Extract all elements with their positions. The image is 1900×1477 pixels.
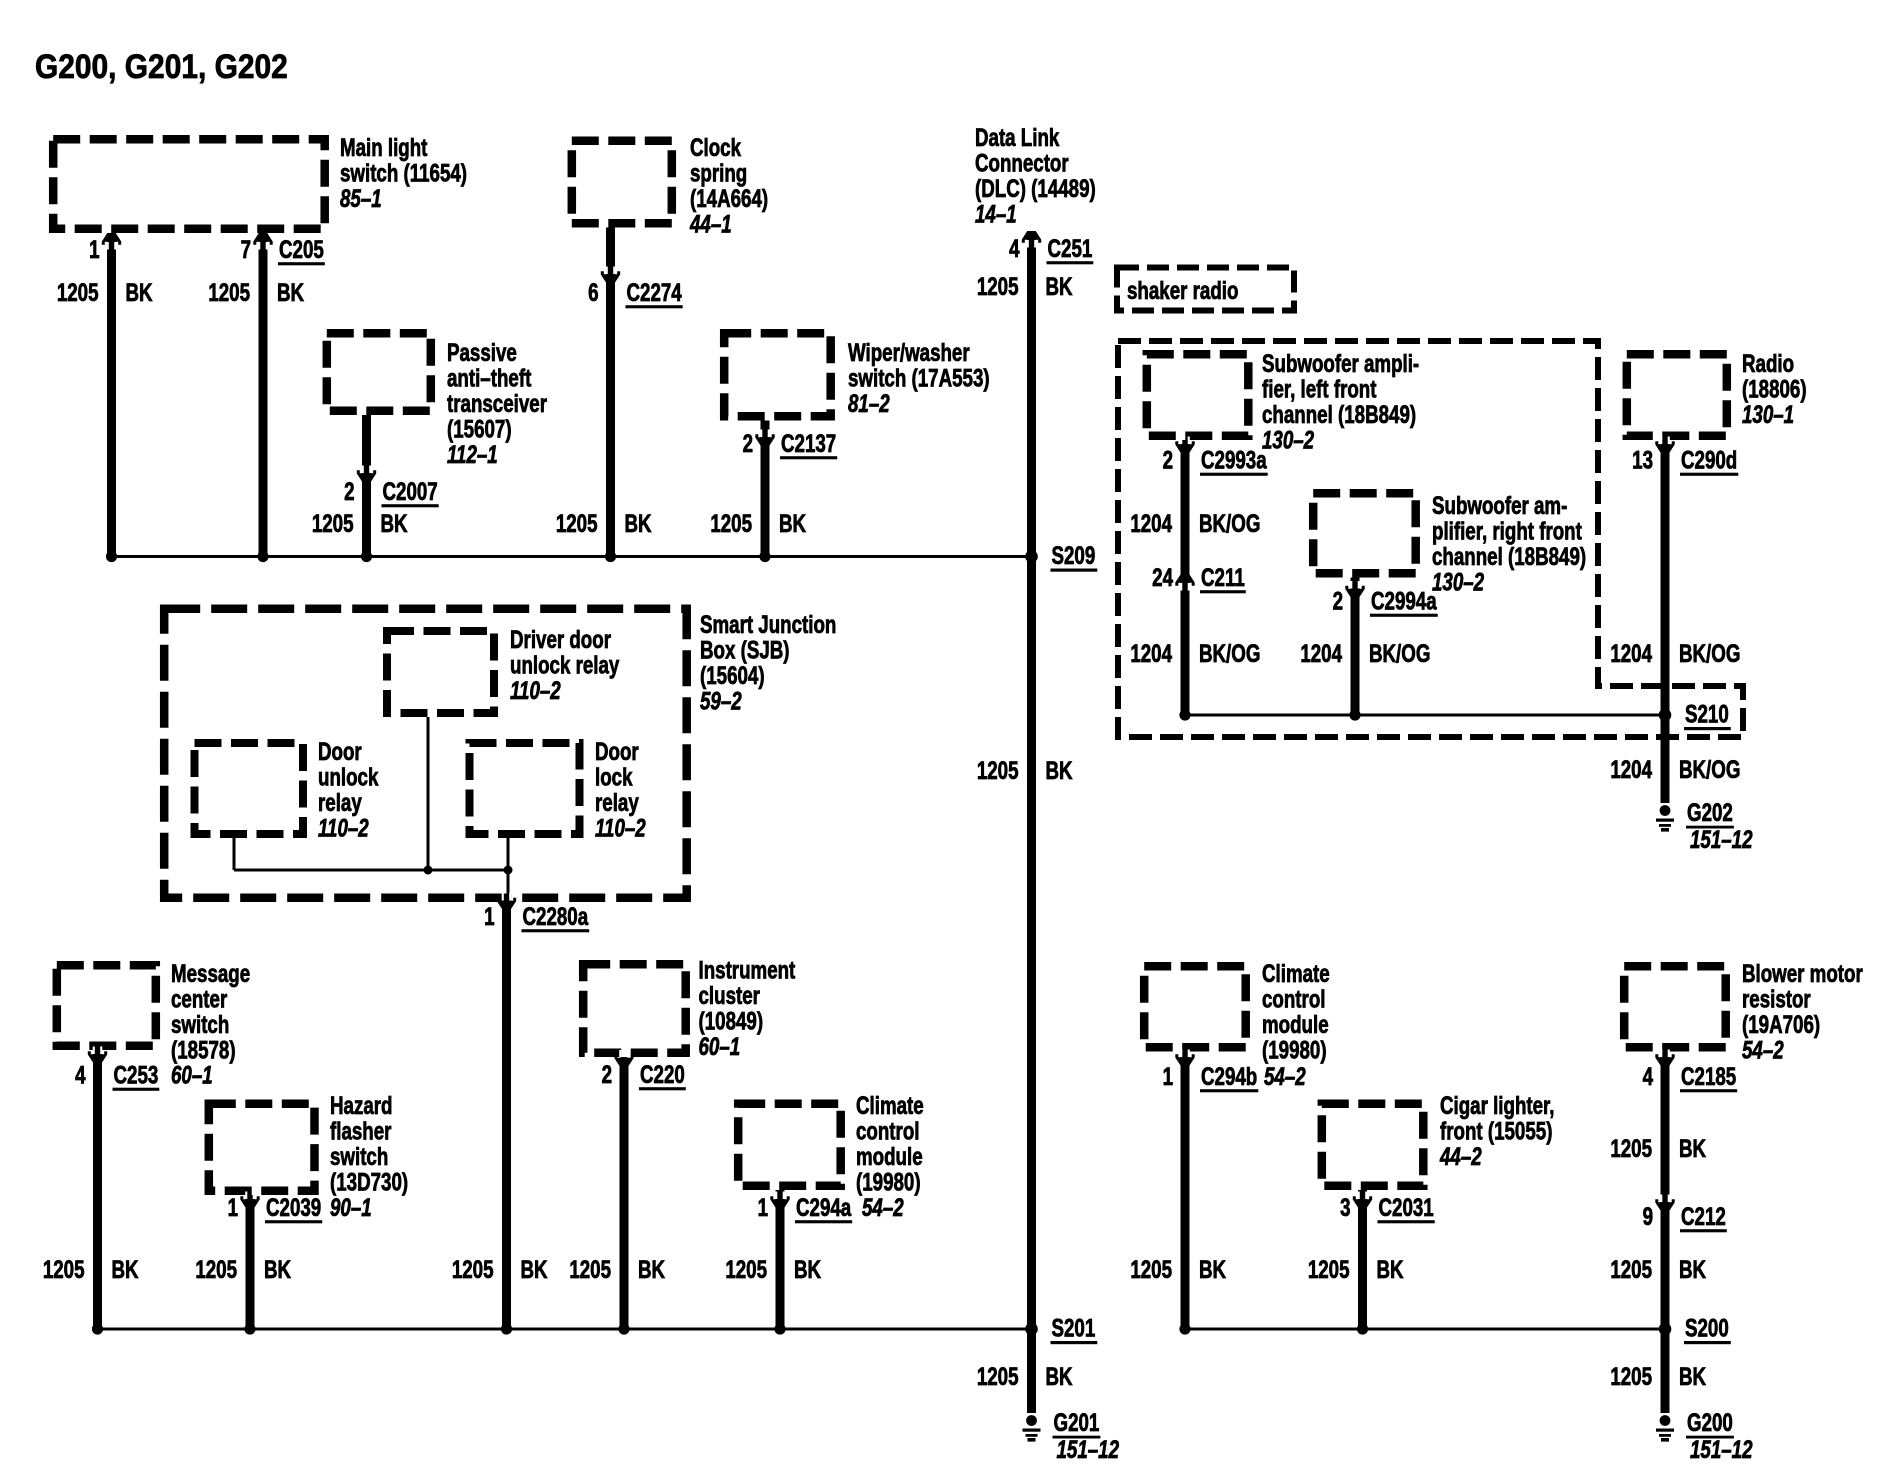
svg-text:85–1: 85–1	[340, 184, 382, 212]
svg-text:Door: Door	[318, 737, 362, 765]
svg-text:1: 1	[1163, 1062, 1173, 1090]
svg-text:unlock: unlock	[318, 763, 379, 791]
svg-text:channel (18B849): channel (18B849)	[1262, 400, 1416, 428]
svg-text:(13D730): (13D730)	[330, 1168, 408, 1196]
svg-text:cluster: cluster	[699, 981, 761, 1009]
svg-text:Cigar lighter,: Cigar lighter,	[1440, 1091, 1555, 1119]
svg-text:110–2: 110–2	[318, 814, 369, 842]
svg-text:C212: C212	[1681, 1202, 1726, 1230]
svg-text:54–2: 54–2	[862, 1193, 904, 1221]
svg-text:BK: BK	[112, 1255, 139, 1283]
svg-text:S210: S210	[1685, 700, 1729, 728]
svg-text:1205: 1205	[725, 1255, 767, 1283]
svg-text:module: module	[1262, 1010, 1329, 1038]
svg-text:(15607): (15607)	[447, 415, 512, 443]
svg-text:3: 3	[1340, 1193, 1350, 1221]
svg-text:relay: relay	[595, 788, 639, 816]
svg-text:(18806): (18806)	[1742, 375, 1807, 403]
svg-text:(19980): (19980)	[856, 1168, 921, 1196]
svg-text:Main light: Main light	[340, 133, 428, 161]
svg-text:lock: lock	[595, 763, 633, 791]
svg-text:Message: Message	[171, 959, 250, 987]
svg-text:44–2: 44–2	[1439, 1142, 1482, 1170]
svg-text:2: 2	[1333, 587, 1343, 615]
svg-text:BK: BK	[126, 278, 153, 306]
svg-text:BK: BK	[1199, 1255, 1226, 1283]
svg-text:(10849): (10849)	[699, 1007, 764, 1035]
svg-text:Subwoofer ampli-: Subwoofer ampli-	[1262, 349, 1419, 377]
svg-text:Radio: Radio	[1742, 349, 1794, 377]
svg-text:1204: 1204	[1130, 509, 1172, 537]
svg-text:1205: 1205	[57, 278, 99, 306]
svg-text:C2007: C2007	[383, 477, 438, 505]
svg-text:(19A706): (19A706)	[1742, 1010, 1820, 1038]
svg-text:Hazard: Hazard	[330, 1091, 392, 1119]
svg-text:switch: switch	[330, 1142, 388, 1170]
svg-text:1205: 1205	[1130, 1255, 1172, 1283]
svg-text:G201: G201	[1054, 1408, 1100, 1436]
svg-text:90–1: 90–1	[330, 1193, 372, 1221]
svg-text:anti–theft: anti–theft	[447, 364, 532, 392]
svg-text:relay: relay	[318, 788, 362, 816]
svg-text:1205: 1205	[43, 1255, 85, 1283]
svg-text:BK: BK	[1679, 1134, 1706, 1162]
svg-text:BK: BK	[779, 509, 806, 537]
svg-text:unlock relay: unlock relay	[510, 651, 620, 679]
svg-text:4: 4	[75, 1061, 86, 1089]
svg-text:60–1: 60–1	[171, 1061, 213, 1089]
svg-text:plifier, right front: plifier, right front	[1432, 517, 1582, 545]
svg-text:1204: 1204	[1130, 639, 1172, 667]
svg-text:(19980): (19980)	[1262, 1036, 1327, 1064]
svg-text:BK: BK	[264, 1255, 291, 1283]
svg-text:Climate: Climate	[856, 1091, 924, 1119]
svg-text:1205: 1205	[312, 509, 354, 537]
svg-text:Data Link: Data Link	[975, 123, 1060, 151]
svg-text:1205: 1205	[452, 1255, 494, 1283]
svg-text:14–1: 14–1	[975, 200, 1017, 228]
svg-text:G200, G201, G202: G200, G201, G202	[35, 47, 288, 85]
svg-text:9: 9	[1643, 1202, 1653, 1230]
svg-text:BK: BK	[1046, 756, 1073, 784]
svg-text:54–2: 54–2	[1264, 1062, 1306, 1090]
svg-text:Instrument: Instrument	[699, 956, 796, 984]
svg-text:C2993a: C2993a	[1201, 446, 1267, 474]
svg-text:1205: 1205	[1308, 1255, 1350, 1283]
svg-text:59–2: 59–2	[700, 687, 742, 715]
svg-text:BK: BK	[381, 509, 408, 537]
svg-text:13: 13	[1632, 446, 1653, 474]
svg-text:control: control	[856, 1117, 919, 1145]
svg-text:Passive: Passive	[447, 338, 517, 366]
svg-text:BK/OG: BK/OG	[1369, 639, 1430, 667]
svg-text:BK/OG: BK/OG	[1679, 755, 1740, 783]
svg-text:C251: C251	[1048, 234, 1093, 262]
svg-text:2: 2	[344, 477, 354, 505]
svg-text:S209: S209	[1052, 541, 1096, 569]
svg-text:control: control	[1262, 985, 1325, 1013]
svg-text:4: 4	[1009, 234, 1020, 262]
svg-text:BK: BK	[1377, 1255, 1404, 1283]
svg-text:G202: G202	[1687, 798, 1733, 826]
svg-text:81–2: 81–2	[848, 389, 890, 417]
svg-text:module: module	[856, 1142, 923, 1170]
svg-text:24: 24	[1152, 563, 1173, 591]
svg-text:7: 7	[241, 235, 251, 263]
svg-text:Box (SJB): Box (SJB)	[700, 636, 790, 664]
svg-text:center: center	[171, 985, 228, 1013]
svg-text:switch (11654): switch (11654)	[340, 159, 467, 187]
svg-text:C2994a: C2994a	[1371, 587, 1437, 615]
svg-text:1205: 1205	[977, 272, 1019, 300]
svg-text:Subwoofer am-: Subwoofer am-	[1432, 491, 1567, 519]
svg-text:BK: BK	[638, 1255, 665, 1283]
svg-text:6: 6	[588, 278, 598, 306]
svg-text:transceiver: transceiver	[447, 389, 547, 417]
svg-text:130–2: 130–2	[1262, 426, 1315, 454]
svg-text:1205: 1205	[1610, 1362, 1652, 1390]
svg-text:Climate: Climate	[1262, 959, 1330, 987]
svg-text:2: 2	[602, 1060, 612, 1088]
svg-text:C205: C205	[279, 235, 324, 263]
svg-text:C2031: C2031	[1379, 1193, 1434, 1221]
svg-text:1205: 1205	[569, 1255, 611, 1283]
svg-text:Blower motor: Blower motor	[1742, 959, 1863, 987]
svg-text:151–12: 151–12	[1690, 825, 1753, 853]
svg-text:1205: 1205	[977, 1362, 1019, 1390]
svg-text:shaker radio: shaker radio	[1127, 276, 1238, 304]
svg-text:C2280a: C2280a	[523, 902, 589, 930]
svg-text:switch (17A553): switch (17A553)	[848, 364, 990, 392]
svg-text:(DLC) (14489): (DLC) (14489)	[975, 174, 1096, 202]
svg-text:1: 1	[89, 235, 99, 263]
svg-text:S201: S201	[1052, 1314, 1096, 1342]
svg-text:channel (18B849): channel (18B849)	[1432, 542, 1586, 570]
svg-text:112–1: 112–1	[447, 440, 498, 468]
svg-text:C290d: C290d	[1681, 446, 1737, 474]
svg-text:1: 1	[228, 1193, 238, 1221]
svg-text:Connector: Connector	[975, 149, 1069, 177]
svg-text:BK: BK	[1679, 1255, 1706, 1283]
svg-text:BK/OG: BK/OG	[1679, 639, 1740, 667]
svg-text:Clock: Clock	[690, 133, 742, 161]
svg-text:spring: spring	[690, 159, 747, 187]
svg-text:fier, left front: fier, left front	[1262, 375, 1377, 403]
svg-text:front (15055): front (15055)	[1440, 1117, 1552, 1145]
svg-text:C2274: C2274	[627, 278, 683, 306]
svg-text:130–1: 130–1	[1742, 400, 1794, 428]
svg-text:BK: BK	[521, 1255, 548, 1283]
svg-text:Wiper/washer: Wiper/washer	[848, 338, 970, 366]
svg-text:resistor: resistor	[1742, 985, 1811, 1013]
svg-text:1204: 1204	[1300, 639, 1342, 667]
svg-text:54–2: 54–2	[1742, 1036, 1784, 1064]
svg-text:G200: G200	[1687, 1408, 1733, 1436]
svg-text:1: 1	[484, 902, 494, 930]
svg-text:switch: switch	[171, 1010, 229, 1038]
svg-text:C2039: C2039	[266, 1193, 321, 1221]
svg-text:BK: BK	[1679, 1362, 1706, 1390]
svg-text:1205: 1205	[977, 756, 1019, 784]
svg-text:1204: 1204	[1610, 755, 1652, 783]
svg-text:1205: 1205	[1610, 1134, 1652, 1162]
svg-text:Driver door: Driver door	[510, 625, 611, 653]
svg-text:1205: 1205	[1610, 1255, 1652, 1283]
svg-text:44–1: 44–1	[689, 210, 732, 238]
svg-text:2: 2	[1163, 446, 1173, 474]
svg-text:BK: BK	[625, 509, 652, 537]
svg-text:1205: 1205	[556, 509, 598, 537]
svg-text:1: 1	[758, 1193, 768, 1221]
svg-text:Door: Door	[595, 737, 639, 765]
svg-text:(15604): (15604)	[700, 661, 765, 689]
svg-text:110–2: 110–2	[595, 814, 646, 842]
svg-text:C294a: C294a	[796, 1193, 852, 1221]
svg-text:C2137: C2137	[781, 429, 836, 457]
svg-text:4: 4	[1643, 1062, 1654, 1090]
svg-text:BK: BK	[1046, 1362, 1073, 1390]
svg-text:BK: BK	[794, 1255, 821, 1283]
svg-text:C2185: C2185	[1681, 1062, 1736, 1090]
svg-text:60–1: 60–1	[699, 1032, 741, 1060]
svg-text:C253: C253	[114, 1061, 159, 1089]
svg-text:2: 2	[743, 429, 753, 457]
svg-text:S200: S200	[1685, 1314, 1729, 1342]
svg-text:BK: BK	[277, 278, 304, 306]
svg-text:1205: 1205	[195, 1255, 237, 1283]
svg-text:151–12: 151–12	[1690, 1435, 1753, 1463]
svg-text:110–2: 110–2	[510, 676, 561, 704]
svg-text:C220: C220	[640, 1060, 685, 1088]
svg-text:1205: 1205	[208, 278, 250, 306]
svg-text:130–2: 130–2	[1432, 568, 1485, 596]
svg-text:1205: 1205	[710, 509, 752, 537]
svg-text:C294b: C294b	[1201, 1062, 1257, 1090]
svg-text:BK/OG: BK/OG	[1199, 639, 1260, 667]
svg-text:151–12: 151–12	[1057, 1435, 1120, 1463]
svg-text:(14A664): (14A664)	[690, 184, 768, 212]
svg-text:Smart Junction: Smart Junction	[700, 610, 836, 638]
svg-text:BK: BK	[1046, 272, 1073, 300]
svg-text:C211: C211	[1201, 563, 1245, 591]
svg-text:BK/OG: BK/OG	[1199, 509, 1260, 537]
svg-text:1204: 1204	[1610, 639, 1652, 667]
svg-text:flasher: flasher	[330, 1117, 392, 1145]
